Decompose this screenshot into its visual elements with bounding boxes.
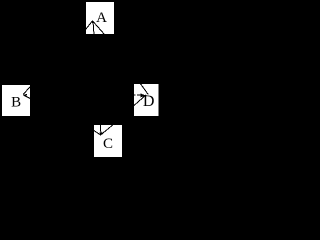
- arrowhead at C (edge A to C): [99, 133, 102, 136]
- edge B-C (visible in B: shallow dash): [23, 95, 30, 99]
- edge A-B (visible in B: diagonal from top-right corner): [23, 86, 31, 95]
- svg-text:C: C: [103, 136, 113, 152]
- node A box: [86, 2, 114, 34]
- node D box: [134, 84, 159, 116]
- svg-text:A: A: [96, 10, 107, 26]
- arrowhead at D (edge B to D): [140, 93, 145, 97]
- arrowhead at B (edge A to B): [23, 94, 27, 98]
- arrowhead at A (edge C to A): [92, 21, 95, 24]
- edge C-D (visible in D: down-left diagonal): [134, 95, 146, 106]
- edge C-D (visible in C: up-right line): [101, 124, 115, 136]
- edge B-C (visible in C: up-left line): [94, 130, 101, 135]
- edge A-D (visible in D: steep diagonal): [140, 84, 148, 95]
- svg-text:D: D: [143, 93, 155, 110]
- edge A-B (visible in A: down-left line): [84, 21, 93, 32]
- edge A-C (vertical shaft in A and C): [93, 21, 101, 135]
- edge B-D (horizontal line visible in D): [134, 94, 141, 96]
- node B box: [2, 85, 30, 116]
- node C box: [94, 125, 122, 157]
- svg-text:B: B: [11, 95, 21, 111]
- edge A-D (visible in A: down-right line): [93, 21, 105, 35]
